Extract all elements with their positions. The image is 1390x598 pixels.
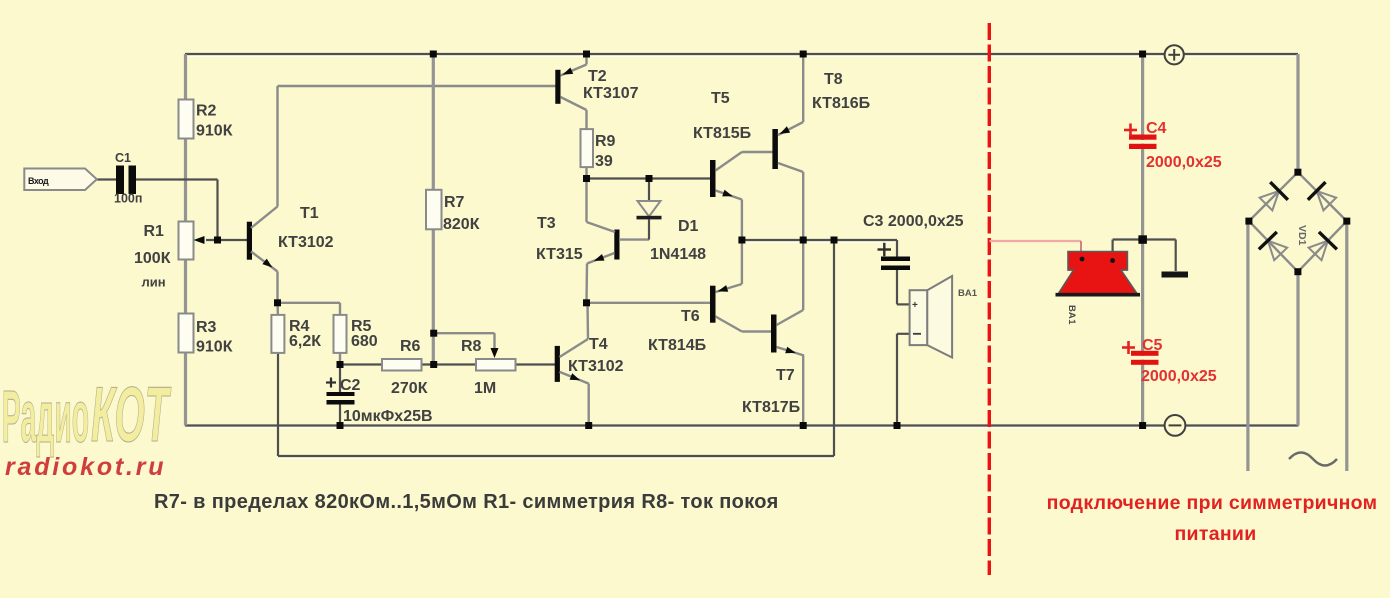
- node input base: [214, 237, 221, 244]
- capacitor C5 red: [1122, 337, 1217, 385]
- AC tilde symbol: [1289, 453, 1337, 466]
- svg-text:R7: R7: [444, 194, 465, 211]
- svg-text:820К: 820К: [443, 216, 480, 233]
- node ground speaker: [894, 422, 901, 429]
- svg-text:КОТ: КОТ: [91, 371, 171, 458]
- svg-text:С3 2000,0х25: С3 2000,0х25: [863, 213, 964, 230]
- watermark Radio KOT: [2, 371, 171, 458]
- svg-text:Т4: Т4: [589, 336, 608, 353]
- wire feedback bottom: [278, 240, 834, 458]
- resistor R4: [271, 315, 321, 353]
- svg-text:Т7: Т7: [776, 367, 795, 384]
- diode D1 1N4148: [637, 179, 707, 264]
- wire output node line: [742, 240, 897, 242]
- wire C4C5 node to red speaker and ground: [1113, 240, 1176, 272]
- wire T1 emitter node to R4 R5: [278, 303, 341, 315]
- svg-text:Т2: Т2: [588, 68, 607, 85]
- capacitor C3: [863, 213, 964, 304]
- transistor T8 KT816B: [772, 54, 870, 240]
- red dashed divider: [988, 23, 991, 575]
- svg-text:С2: С2: [340, 377, 361, 394]
- svg-text:Т3: Т3: [537, 215, 556, 232]
- node top rail T8: [800, 51, 807, 58]
- wire T3 T4 node to T6 base: [587, 302, 711, 304]
- svg-text:R1: R1: [144, 223, 165, 240]
- node dots: [214, 51, 1350, 430]
- resistor R2: [179, 100, 233, 140]
- plus terminal symbol: [1165, 45, 1184, 64]
- node R5 C2 R6: [337, 361, 344, 368]
- node output T5: [738, 237, 745, 244]
- svg-text:R3: R3: [196, 319, 217, 336]
- wire R6 R8 line: [340, 363, 556, 365]
- node T3 T4: [583, 299, 590, 306]
- svg-text:1N4148: 1N4148: [650, 246, 706, 263]
- wire pink output to speaker: [990, 241, 1082, 253]
- wire left rail: [184, 54, 187, 426]
- svg-text:100п: 100п: [114, 192, 142, 206]
- node ground C2: [337, 422, 344, 429]
- transistor T6 KT814B: [648, 240, 771, 354]
- svg-text:D1: D1: [678, 218, 699, 235]
- svg-text:Т5: Т5: [711, 90, 730, 107]
- wire right side down from top rail: [1296, 54, 1299, 172]
- svg-text:КТ3107: КТ3107: [583, 85, 639, 102]
- node top rail C4: [1139, 51, 1146, 58]
- svg-text:КТ816Б: КТ816Б: [812, 95, 870, 112]
- wire input line: [95, 180, 247, 241]
- svg-text:6,2К: 6,2К: [289, 333, 321, 350]
- svg-text:R8: R8: [461, 338, 482, 355]
- diode bridge VD1: [1249, 172, 1347, 272]
- svg-text:КТ3102: КТ3102: [278, 234, 334, 251]
- resistor R8 potentiometer: [461, 338, 516, 397]
- svg-text:лин: лин: [142, 275, 166, 290]
- resistor R5: [334, 315, 378, 365]
- node bridge right: [1343, 218, 1350, 225]
- node C4 C5 mid: [1138, 235, 1147, 244]
- node ground T4: [585, 422, 592, 429]
- transistor T4 KT3102: [555, 303, 624, 426]
- wire R7 line to R8 wiper: [434, 333, 495, 350]
- svg-text:2000,0х25: 2000,0х25: [1141, 368, 1217, 385]
- node output feedback: [831, 237, 838, 244]
- wire R7 rail vertical: [432, 54, 435, 365]
- svg-text:С4: С4: [1146, 120, 1167, 137]
- wire bottom ground rail: [185, 426, 1299, 428]
- transistor T5 KT815B: [693, 90, 772, 240]
- svg-text:radiokot.ru: radiokot.ru: [5, 453, 166, 481]
- node top rail R7: [430, 51, 437, 58]
- resistor R1 potentiometer: [134, 222, 205, 290]
- wire AC legs: [1248, 221, 1347, 471]
- svg-text:100К: 100К: [134, 250, 171, 267]
- svg-text:R9: R9: [595, 133, 616, 150]
- caption red symmetric supply: [1047, 492, 1378, 545]
- svg-text:КТ814Б: КТ814Б: [648, 337, 706, 354]
- svg-text:39: 39: [595, 153, 613, 170]
- transistor T7 KT817B: [742, 240, 804, 426]
- resistor R7: [426, 190, 480, 233]
- svg-text:910К: 910К: [196, 339, 233, 356]
- svg-text:2000,0х25: 2000,0х25: [1146, 154, 1222, 171]
- svg-text:Вход: Вход: [28, 176, 49, 186]
- svg-text:270К: 270К: [391, 380, 428, 397]
- node R9 bottom: [583, 175, 590, 182]
- node ground T7: [800, 422, 807, 429]
- svg-text:R6: R6: [400, 338, 421, 355]
- svg-text:Радио: Радио: [2, 375, 89, 458]
- wire bridge bottom to ground rail: [1296, 272, 1299, 426]
- speaker BA1 red: [1056, 252, 1141, 326]
- ground symbol: [1162, 272, 1189, 278]
- wire R9 node to T5 base: [587, 177, 711, 179]
- speaker BA1: [897, 276, 978, 426]
- svg-text:ВА1: ВА1: [1066, 305, 1077, 325]
- svg-text:С5: С5: [1142, 337, 1163, 354]
- svg-text:Т8: Т8: [824, 71, 843, 88]
- input connector Вход: [24, 169, 97, 191]
- resistor R9: [581, 129, 616, 178]
- minus terminal symbol: [1165, 415, 1186, 436]
- svg-text:КТ815Б: КТ815Б: [693, 125, 751, 142]
- svg-text:+: +: [912, 300, 918, 311]
- wire C4 C5 vertical: [1141, 54, 1144, 426]
- svg-text:10мкФх25В: 10мкФх25В: [343, 408, 433, 425]
- node ground C5: [1139, 422, 1146, 429]
- svg-text:Т6: Т6: [681, 308, 700, 325]
- node D1 anode: [646, 175, 653, 182]
- transistor T2 KT3107: [555, 54, 638, 129]
- svg-text:680: 680: [351, 333, 378, 350]
- transistor T3 KT315 mirrored: [536, 179, 649, 303]
- node bridge left: [1245, 218, 1252, 225]
- svg-text:КТ817Б: КТ817Б: [742, 399, 800, 416]
- svg-text:910К: 910К: [196, 123, 233, 140]
- svg-text:подключение при симметричном: подключение при симметричном: [1047, 492, 1378, 514]
- resistor R3: [179, 314, 233, 356]
- transistor T1 KT3102: [247, 205, 334, 303]
- resistor R6: [382, 338, 428, 397]
- wire T1 collector to T2 base: [278, 86, 557, 207]
- node output T8 T7: [800, 237, 807, 244]
- svg-text:С1: С1: [115, 151, 131, 165]
- svg-text:R7- в пределах 820кОм..1,5мОм: R7- в пределах 820кОм..1,5мОм R1- симмет…: [154, 491, 779, 513]
- svg-text:1М: 1М: [474, 380, 496, 397]
- svg-text:КТ3102: КТ3102: [568, 358, 624, 375]
- node bridge bottom: [1294, 268, 1301, 275]
- svg-text:R2: R2: [196, 103, 217, 120]
- capacitor C2: [326, 365, 433, 426]
- svg-text:КТ315: КТ315: [536, 246, 583, 263]
- svg-text:VD1: VD1: [1296, 225, 1308, 246]
- wire top supply rail: [185, 54, 1298, 56]
- node R6 right: [430, 361, 437, 368]
- svg-text:Т1: Т1: [300, 205, 319, 222]
- node R7 R8: [430, 330, 437, 337]
- node T1 emitter: [274, 299, 281, 306]
- node bridge top: [1294, 169, 1301, 176]
- svg-text:питании: питании: [1174, 523, 1256, 545]
- svg-text:BA1: BA1: [958, 288, 978, 299]
- capacitor C4 red: [1124, 120, 1222, 171]
- node top rail T2: [583, 51, 590, 58]
- capacitor C1: [114, 151, 142, 206]
